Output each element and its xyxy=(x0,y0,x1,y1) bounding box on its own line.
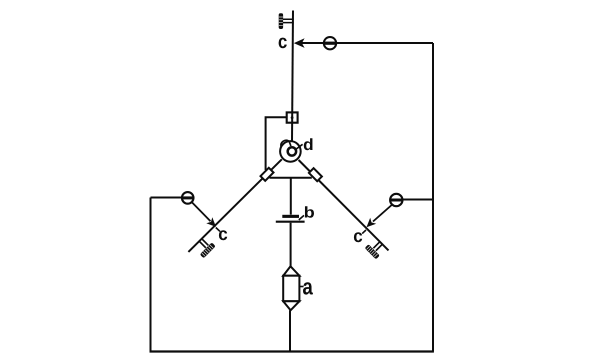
arrow (right, pointing down-left) xyxy=(367,205,392,227)
contact b upper plate xyxy=(282,215,299,218)
adjusting screw knob (lower left) xyxy=(199,239,215,259)
adjusting screw knob (top) xyxy=(279,13,294,29)
notch of d xyxy=(289,142,291,147)
wire right horizontal xyxy=(403,199,434,201)
wire base to contact b xyxy=(290,178,292,215)
wire bracket from box to left diamond xyxy=(266,117,286,170)
wire left frame xyxy=(150,198,152,352)
crossed-circle (left) xyxy=(182,192,194,204)
tick to label b xyxy=(299,215,304,220)
arrow (left, pointing down-right) xyxy=(192,202,216,227)
arrowhead (top, pointing left) xyxy=(294,38,305,48)
tick to label c (left) xyxy=(216,228,220,232)
label c (left) xyxy=(219,230,227,240)
connector box above d xyxy=(287,112,298,122)
wire bottom frame xyxy=(150,350,434,352)
wire a to bottom frame xyxy=(289,310,291,351)
label c (top) xyxy=(279,38,287,49)
wire top vertical xyxy=(292,11,293,142)
tick to label a xyxy=(300,286,304,288)
label b xyxy=(305,206,314,217)
wire left diagonal xyxy=(188,159,281,252)
diamond coupling (right) xyxy=(309,168,322,181)
cam lobe of d xyxy=(281,140,289,147)
wire left horizontal xyxy=(151,197,185,199)
hub of d xyxy=(288,147,296,155)
tick to label c (right) xyxy=(362,230,366,234)
adjusting screw knob (lower right) xyxy=(365,242,383,260)
label d xyxy=(304,138,313,150)
tick to label d xyxy=(296,144,303,149)
wire right frame xyxy=(432,43,434,352)
diamond coupling (left) xyxy=(261,168,274,181)
crossed-circle (right) xyxy=(390,194,402,206)
rotor circle d xyxy=(280,141,301,162)
wire right diagonal xyxy=(299,160,389,250)
wire triangle base xyxy=(270,177,312,179)
contact b lower plate xyxy=(276,221,305,223)
wire b to cell a xyxy=(290,223,292,267)
label a xyxy=(303,282,313,294)
label c (right) xyxy=(354,232,362,242)
crossed-circle (top) xyxy=(324,37,336,49)
cell a body xyxy=(283,266,299,310)
wire top-right horizontal xyxy=(297,42,434,44)
